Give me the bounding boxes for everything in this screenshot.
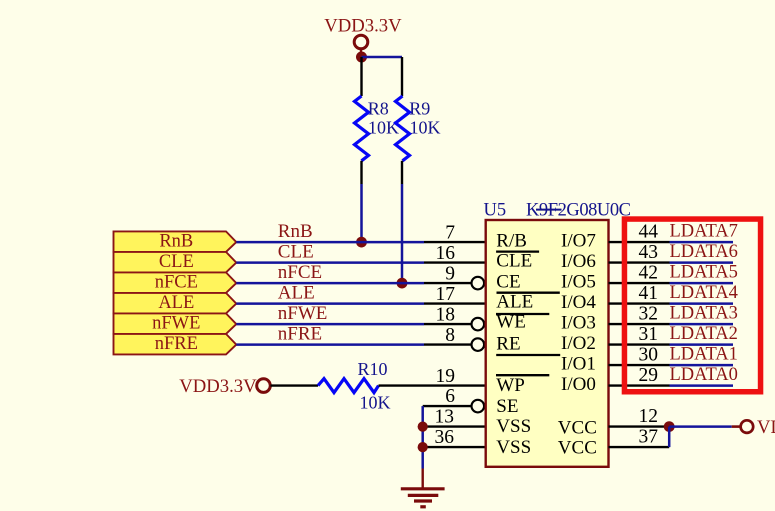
wire SE/VSS to ground [421,406,424,468]
svg-text:VDD3.3V: VDD3.3V [757,417,775,438]
pin name VSS [496,437,531,458]
wire LDATA3 [670,323,734,326]
pin 42 stub I/O5 [609,262,670,283]
svg-text:R8: R8 [368,99,389,119]
pin name SE [496,396,518,417]
svg-text:nFCE: nFCE [278,262,322,283]
pin 29 stub I/O0 [609,365,670,386]
svg-text:44: 44 [639,221,659,242]
pin name bar [496,354,560,356]
pin name I/O0 [561,374,596,395]
wire VDD to R10 [271,384,319,386]
svg-text:13: 13 [435,407,455,428]
svg-text:17: 17 [436,284,456,305]
pin name I/O1 [561,353,596,374]
svg-text:19: 19 [436,366,456,387]
svg-text:18: 18 [436,304,456,325]
net label LDATA1 [670,344,738,364]
highlight box around LDATA bus [624,219,760,392]
power port VDD3.3V (right, clipped) [741,417,775,438]
svg-text:7: 7 [445,222,455,243]
pin 18 stub (inverted) [424,304,484,330]
pin name I/O5 [561,271,596,292]
pin name WE [496,311,526,332]
power port VDD3.3V (left) [179,376,270,397]
wire pin37 riser [668,427,671,448]
wire net nFCE [236,282,424,285]
junction dot R8/RnB [356,237,367,248]
pin 43 stub I/O6 [609,242,670,263]
svg-text:RnB: RnB [159,232,193,252]
svg-text:nFWE: nFWE [152,314,200,334]
svg-text:RE: RE [496,334,520,355]
pin 41 stub I/O4 [609,283,670,304]
svg-text:LDATA0: LDATA0 [670,365,738,385]
pin 37 stub VCC [609,426,670,447]
net label CLE [278,242,314,263]
resistor R8 [355,57,400,184]
part name K9F2G08U0C [526,200,631,220]
pin 36 stub (VSS) [423,427,486,448]
pin name I/O4 [561,292,596,313]
svg-text:37: 37 [639,426,659,447]
net label RnB [278,221,313,242]
svg-text:U5: U5 [484,200,507,220]
svg-text:32: 32 [639,303,659,324]
svg-text:CE: CE [496,271,520,292]
wire VDD node to R9 top [362,56,403,59]
svg-text:LDATA6: LDATA6 [670,242,738,262]
svg-text:VDD3.3V: VDD3.3V [324,16,402,37]
net label nFCE [278,262,322,283]
wire LDATA5 [670,282,734,285]
svg-text:nFCE: nFCE [155,273,198,293]
svg-text:9: 9 [445,263,455,284]
pin name CE [496,271,520,292]
ground [401,469,445,507]
power port VDD3.3V (top) [324,16,402,53]
svg-text:ALE: ALE [158,293,194,313]
IC U5 K9F2G08U0C body [486,220,609,467]
svg-text:41: 41 [639,283,659,304]
pin name bar [497,292,560,294]
svg-text:LDATA5: LDATA5 [670,262,738,282]
net label LDATA4 [670,283,738,303]
wire R9 to nFCE net [401,184,404,283]
wire VCC to VDD port [669,425,732,428]
svg-text:CLE: CLE [159,252,194,272]
designator U5 [484,200,507,220]
port RnB [114,231,237,252]
wire R10 to pin 19 (WP) [379,366,486,387]
svg-text:29: 29 [639,365,659,386]
wire R8 to RnB net [360,184,363,242]
wire net ALE [236,302,424,305]
pin name I/O7 [561,230,596,251]
wire LDATA1 [670,364,734,367]
pin 17 stub [424,284,486,305]
pin 12 stub VCC [609,406,670,427]
svg-text:12: 12 [639,406,659,427]
pin name RE [496,334,520,355]
svg-text:CLE: CLE [278,242,314,263]
svg-text:6: 6 [445,386,455,407]
port CLE [114,252,237,273]
pin 7 stub [424,222,486,243]
resistor R10 [318,359,391,413]
svg-text:10K: 10K [368,118,399,138]
pin name VSS [496,416,531,437]
pin 32 stub I/O3 [609,303,670,324]
svg-text:LDATA2: LDATA2 [670,324,738,344]
junction dot VDD node [356,52,367,63]
svg-text:R10: R10 [358,359,388,379]
svg-text:I/O2: I/O2 [561,333,596,354]
svg-text:LDATA7: LDATA7 [670,221,738,241]
svg-text:VSS: VSS [496,416,531,437]
svg-text:VCC: VCC [558,438,597,459]
port stem [732,425,741,428]
svg-text:31: 31 [639,324,659,345]
net label nFWE [278,303,328,324]
svg-text:43: 43 [639,242,659,263]
svg-text:ALE: ALE [278,283,315,304]
net label nFRE [278,324,322,345]
pin name CLE [496,251,532,272]
svg-text:R9: R9 [409,99,430,119]
port ALE [114,293,237,314]
svg-text:CLE: CLE [496,251,532,272]
svg-text:LDATA3: LDATA3 [670,303,738,323]
svg-text:36: 36 [435,427,455,448]
svg-text:VCC: VCC [558,418,597,439]
resistor R9 [396,57,441,184]
wire LDATA0 [670,384,734,387]
svg-text:VDD3.3V: VDD3.3V [179,376,257,397]
wire net nFRE [236,343,424,346]
wire net nFWE [236,323,424,326]
junction dot VSS 36 [418,442,428,452]
svg-text:I/O1: I/O1 [561,353,596,374]
wire LDATA7 [670,241,734,244]
pin name VCC (12) [558,418,597,439]
pin 30 stub I/O1 [609,344,670,365]
svg-text:42: 42 [639,262,659,283]
pin name I/O6 [561,251,596,272]
wire LDATA2 [670,343,734,346]
pin name WP [496,375,525,396]
junction dot VCC [664,421,675,432]
svg-text:I/O0: I/O0 [561,374,596,395]
svg-text:16: 16 [436,243,456,264]
net label LDATA7 [670,221,738,241]
svg-text:WP: WP [496,375,525,396]
net label LDATA6 [670,242,738,262]
pin 6 stub (SE, inverted) [423,386,484,412]
pin name bar [496,250,539,252]
net label LDATA2 [670,324,738,344]
port nFCE [114,272,237,293]
pin name ALE [496,292,533,313]
svg-text:R/B: R/B [496,230,527,251]
svg-text:ALE: ALE [496,292,533,313]
pin name I/O3 [561,312,596,333]
wire net CLE [236,261,424,264]
svg-text:I/O6: I/O6 [561,251,596,272]
svg-text:30: 30 [639,344,659,365]
pin 8 stub (inverted) [424,325,484,351]
svg-text:nFRE: nFRE [155,334,198,354]
wire LDATA6 [670,261,734,264]
net label LDATA0 [670,365,738,385]
wire LDATA4 [670,302,734,305]
svg-text:8: 8 [445,325,455,346]
pin name I/O2 [561,333,596,354]
svg-text:LDATA1: LDATA1 [670,344,738,364]
pin 9 stub (inverted) [424,263,484,289]
svg-text:nFRE: nFRE [278,324,322,345]
svg-text:I/O7: I/O7 [561,230,596,251]
net label LDATA3 [670,303,738,323]
pin name bar [496,374,549,376]
pin 31 stub I/O2 [609,324,670,345]
svg-text:10K: 10K [410,118,441,138]
svg-text:I/O4: I/O4 [561,292,596,313]
pin 44 stub I/O7 [609,221,670,242]
svg-text:I/O3: I/O3 [561,312,596,333]
svg-text:10K: 10K [360,392,391,412]
net label LDATA5 [670,262,738,282]
svg-text:I/O5: I/O5 [561,271,596,292]
port nFRE [114,334,237,355]
pin name VCC (37) [558,438,597,459]
pin name bar [496,313,549,315]
junction dot R9/nFCE [397,278,408,289]
svg-text:VSS: VSS [496,437,531,458]
net label ALE [278,283,315,304]
pin name R/B [496,230,527,251]
junction dot VSS 13 [418,422,428,432]
svg-text:LDATA4: LDATA4 [670,283,738,303]
svg-text:RnB: RnB [278,221,313,242]
port nFWE [114,313,237,334]
pin 16 stub [424,243,486,264]
pin 13 stub (VSS) [423,407,486,428]
wire net RnB [236,241,424,244]
svg-text:nFWE: nFWE [278,303,328,324]
svg-text:SE: SE [496,396,518,417]
